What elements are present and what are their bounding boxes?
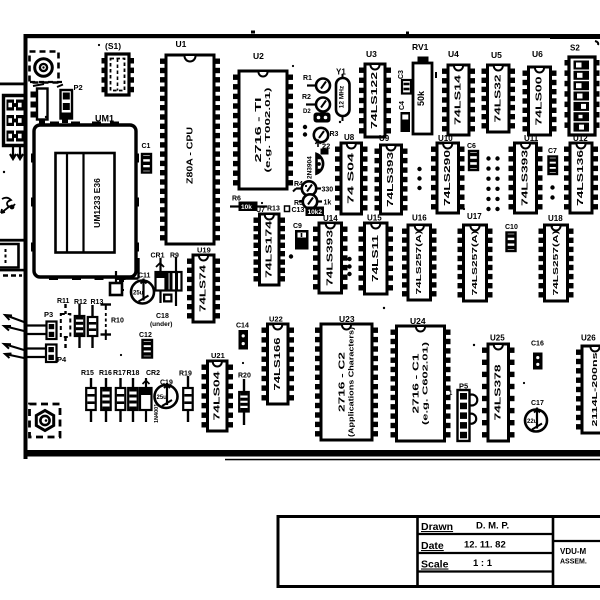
- resistor R10: [101, 305, 124, 341]
- svg-text:74LS257(A): 74LS257(A): [414, 230, 423, 295]
- svg-text:74LS393: 74LS393: [386, 151, 395, 207]
- svg-text:CR1: CR1: [151, 253, 165, 260]
- svg-text:R11: R11: [57, 298, 70, 305]
- svg-text:74LS393: 74LS393: [325, 229, 334, 286]
- op-IC U21 74LS04: [202, 351, 234, 431]
- svg-text:C17: C17: [531, 400, 544, 407]
- op-IC U17 74LS257(A): [458, 212, 493, 301]
- svg-text:330: 330: [322, 187, 334, 194]
- svg-text:ASSEM.: ASSEM.: [560, 559, 587, 566]
- svg-text:(e.g. T002.01): (e.g. T002.01): [263, 87, 272, 173]
- node tick marks on top edge: [251, 31, 255, 34]
- op-IC U18 74LS257(A): [539, 214, 574, 301]
- resistor R9: [168, 253, 182, 307]
- svg-text:1k: 1k: [324, 200, 332, 207]
- svg-text:U5: U5: [491, 50, 502, 60]
- svg-text:74LS136: 74LS136: [576, 149, 585, 206]
- wire left edge line 3: [0, 269, 25, 272]
- connector P3: [44, 310, 57, 339]
- resistor R1: [303, 75, 330, 93]
- op-IC U26 2114L-200ns: [576, 334, 600, 434]
- svg-text:R15: R15: [81, 370, 94, 377]
- svg-text:R20: R20: [238, 373, 251, 380]
- svg-text:U22: U22: [269, 315, 283, 324]
- svg-text:U9: U9: [379, 134, 390, 143]
- resistor R2: [302, 94, 330, 112]
- capacitor C18 under label: [150, 313, 172, 328]
- node holes below U14: [347, 257, 351, 261]
- op-IC U15 74LS11: [359, 214, 394, 295]
- svg-text:U16: U16: [412, 214, 427, 223]
- svg-text:74LS04: 74LS04: [212, 371, 221, 421]
- crystal Y1 12MHz: [336, 68, 350, 122]
- svg-text:R16: R16: [99, 370, 112, 377]
- svg-text:Scale: Scale: [421, 559, 449, 571]
- svg-text:S2: S2: [570, 44, 580, 53]
- svg-text:P4: P4: [57, 355, 67, 364]
- wire board left edge: [24, 34, 28, 459]
- node hole left of U14: [289, 254, 293, 258]
- svg-text:R3: R3: [330, 131, 339, 138]
- title block drawn row: [421, 521, 509, 534]
- svg-text:10k2: 10k2: [308, 209, 323, 216]
- node stray specks: [45, 116, 47, 118]
- resistor R16: [99, 370, 112, 422]
- op-IC U14 74LS393: [313, 214, 348, 293]
- connector P5: [449, 382, 477, 442]
- svg-text:74LS14: 74LS14: [454, 74, 463, 125]
- svg-text:2716 - TI: 2716 - TI: [254, 98, 263, 163]
- wire P3 leads: [27, 326, 47, 335]
- svg-text:R2: R2: [302, 94, 311, 101]
- connector P1: [31, 84, 48, 125]
- svg-text:U3: U3: [366, 49, 377, 59]
- capacitor C7: [548, 148, 557, 174]
- svg-text:(under): (under): [150, 321, 172, 328]
- svg-text:CR2: CR2: [146, 370, 160, 377]
- diode CR1: [151, 253, 166, 304]
- svg-text:74LS290: 74LS290: [443, 149, 452, 206]
- wire board bottom edge thin line: [225, 459, 600, 461]
- op-IC U19 74LS74: [187, 246, 220, 323]
- svg-text:U25: U25: [490, 334, 505, 343]
- svg-text:74LS11: 74LS11: [371, 234, 380, 282]
- capacitor C10: [505, 224, 518, 251]
- op-IC U10 74LS290: [431, 134, 465, 213]
- svg-text:C16: C16: [531, 341, 544, 348]
- svg-text:U15: U15: [367, 214, 382, 223]
- resistor R13b: [88, 299, 104, 348]
- svg-text:2716 - C2: 2716 - C2: [338, 351, 347, 412]
- connector P2: [57, 83, 83, 123]
- wire UM1 to C11 trace: [120, 258, 139, 290]
- svg-text:U4: U4: [448, 49, 459, 59]
- svg-text:25u: 25u: [133, 291, 144, 297]
- connector J1 edge-connector block: [4, 96, 25, 146]
- svg-text:R10: R10: [111, 318, 124, 325]
- svg-text:U8: U8: [344, 133, 355, 142]
- svg-text:12 MHz: 12 MHz: [339, 85, 346, 108]
- svg-text:25u: 25u: [157, 395, 168, 401]
- op-IC U22 74LS166: [262, 315, 295, 405]
- svg-text:UM1233 E36: UM1233 E36: [92, 178, 102, 228]
- wire board top edge: [24, 34, 600, 38]
- wire P4 leads: [27, 349, 46, 358]
- svg-text:R19: R19: [179, 371, 192, 378]
- wire left edge line 2: [0, 239, 25, 242]
- svg-text:Drawn: Drawn: [421, 521, 453, 533]
- svg-text:50k: 50k: [416, 90, 426, 106]
- svg-text:C11: C11: [138, 273, 151, 280]
- svg-text:Y1: Y1: [336, 68, 346, 77]
- capacitor C1: [142, 143, 152, 173]
- title block date row: [421, 540, 506, 553]
- svg-text:R13: R13: [267, 206, 280, 213]
- svg-text:VDU-M: VDU-M: [560, 547, 587, 556]
- svg-text:74LS378: 74LS378: [493, 364, 502, 421]
- svg-text:74LS32: 74LS32: [493, 74, 502, 123]
- module UM1 RF modulator: [31, 114, 139, 281]
- resistor R12: [74, 299, 87, 348]
- node holes left of U11: [486, 156, 490, 160]
- svg-text:74 S04: 74 S04: [346, 152, 355, 204]
- mounting hole top-left dashed box: [30, 52, 59, 83]
- title block frame: [278, 515, 600, 588]
- op-IC U7 74LS174: [254, 207, 286, 285]
- resistor R20: [238, 373, 251, 426]
- capacitor C3: [398, 70, 411, 94]
- svg-text:R17: R17: [113, 370, 126, 377]
- svg-text:2N3904: 2N3904: [307, 156, 314, 179]
- resistor R17: [113, 370, 126, 422]
- op-IC U24 2716-C1: [391, 316, 451, 441]
- svg-text:Z80A - CPU: Z80A - CPU: [184, 127, 194, 184]
- svg-text:74LS174: 74LS174: [264, 220, 273, 278]
- wire left edge dashes: [3, 274, 22, 276]
- connector left edge box: [0, 244, 19, 268]
- op-IC U16 74LS257(A): [402, 214, 437, 301]
- resistor R19: [179, 371, 193, 423]
- switch S1: [102, 41, 135, 95]
- diode D2: [303, 109, 331, 123]
- op-IC U12 74LS136: [564, 134, 598, 213]
- svg-text:1 : 1: 1 : 1: [473, 558, 493, 569]
- node video annotation squiggle: [1, 198, 15, 213]
- resistor R18: [127, 370, 140, 422]
- svg-text:C9: C9: [293, 223, 302, 230]
- switch S2: [565, 44, 600, 136]
- capacitor C16: [531, 341, 544, 370]
- resistor R13 10k2: [306, 207, 325, 217]
- wire left edge horizontal line: [0, 83, 25, 86]
- capacitor C14: [236, 323, 249, 350]
- wire arrows off board left P4: [4, 344, 24, 358]
- node holes below C7: [550, 185, 554, 189]
- capacitor C13 label: [285, 206, 305, 214]
- capacitor C4: [399, 101, 410, 132]
- title block drawing name: [560, 547, 587, 566]
- svg-text:U21: U21: [211, 351, 225, 360]
- capacitor C9: [293, 223, 309, 250]
- capacitor C19 25u electrolytic: [155, 380, 178, 409]
- capacitor C6: [467, 143, 478, 170]
- svg-text:2716 - C1: 2716 - C1: [412, 353, 421, 414]
- svg-text:74LS257(A): 74LS257(A): [551, 230, 560, 296]
- wire board top edge right thick segment: [550, 37, 600, 40]
- op-IC U4 74LS14: [442, 49, 475, 135]
- svg-text:(e.g. C602.01): (e.g. C602.01): [420, 341, 429, 425]
- op-IC U9 74LS393: [375, 134, 408, 214]
- mounting hole bottom-left dashed box: [30, 404, 61, 437]
- op-IC U11 74LS393: [509, 134, 543, 213]
- svg-text:U6: U6: [532, 49, 543, 59]
- wire arrows off board left P3: [4, 315, 24, 331]
- op-IC U1 Z80A-CPU: [160, 39, 220, 244]
- svg-text:C14: C14: [236, 323, 249, 330]
- svg-text:D2: D2: [303, 109, 311, 115]
- resistor R3: [314, 128, 339, 142]
- resistor R4 330: [294, 181, 333, 196]
- svg-text:R18: R18: [127, 370, 140, 377]
- svg-text:C4: C4: [399, 101, 406, 110]
- svg-text:U26: U26: [581, 334, 596, 343]
- svg-text:74LS166: 74LS166: [273, 337, 282, 391]
- svg-text:U18: U18: [548, 214, 563, 223]
- svg-text:10k: 10k: [241, 204, 252, 211]
- svg-text:P2: P2: [74, 83, 83, 92]
- svg-text:C6: C6: [467, 143, 476, 150]
- svg-text:U2: U2: [253, 51, 264, 61]
- svg-text:C7: C7: [548, 148, 557, 155]
- svg-text:P3: P3: [44, 310, 53, 319]
- svg-text:R6: R6: [232, 196, 241, 203]
- node holes between U9 and U10: [417, 167, 421, 171]
- svg-text:RV1: RV1: [412, 42, 429, 52]
- capacitor C11 25u electrolytic: [131, 273, 154, 304]
- node 22 annotation: [316, 140, 331, 151]
- op-IC U8 74S04: [335, 133, 368, 214]
- transistor Q1 2N3904: [307, 149, 329, 180]
- wire top-right corner mark: [595, 41, 598, 45]
- op-IC U6 74LS00: [523, 49, 557, 135]
- svg-text:22u: 22u: [527, 419, 538, 425]
- resistor R5 1k: [294, 194, 331, 208]
- svg-text:C3: C3: [398, 70, 405, 79]
- svg-text:U17: U17: [467, 212, 482, 221]
- svg-text:C1: C1: [142, 143, 151, 150]
- node E pad: [163, 294, 173, 303]
- svg-text:U19: U19: [197, 246, 211, 255]
- svg-text:12. 11. 82: 12. 11. 82: [464, 540, 506, 551]
- svg-text:(S1): (S1): [105, 41, 121, 51]
- wire arrows below connector: [10, 147, 23, 159]
- resistor R11 (dashed): [57, 298, 70, 348]
- svg-text:(Applications Characters): (Applications Characters): [346, 326, 355, 437]
- svg-text:C13: C13: [292, 207, 305, 214]
- svg-text:74LS393: 74LS393: [521, 149, 530, 206]
- svg-text:C18: C18: [156, 313, 169, 320]
- mounting hole top-left: [35, 59, 53, 77]
- svg-text:74LS74: 74LS74: [199, 264, 208, 312]
- svg-text:R1: R1: [303, 75, 312, 82]
- mounting hole bottom-left hex nut: [36, 411, 53, 431]
- op-IC U2 2716-TI: [233, 51, 293, 189]
- capacitor C12: [139, 332, 152, 358]
- svg-text:2114L-200ns: 2114L-200ns: [590, 353, 599, 427]
- resistor R15: [81, 370, 96, 422]
- wire board bottom edge: [24, 450, 600, 457]
- diode CR2: [140, 370, 160, 423]
- node holes: [303, 125, 307, 129]
- title block scale row: [421, 558, 493, 571]
- connector P4: [46, 345, 67, 365]
- capacitor C18 pad: [110, 271, 122, 295]
- svg-text:74LS257(A): 74LS257(A): [470, 230, 479, 296]
- svg-text:U1: U1: [176, 39, 187, 49]
- potentiometer RV1 50k: [412, 42, 436, 134]
- op-IC U25 74LS378: [482, 334, 515, 442]
- resistor R6 10k: [230, 196, 267, 212]
- wire dashed line near mounting hole: [30, 81, 62, 83]
- svg-text:R9: R9: [170, 253, 179, 260]
- svg-text:74LS122: 74LS122: [370, 71, 379, 129]
- op-IC U23 2716-C2: [315, 314, 378, 440]
- op-IC U3 74LS122: [359, 49, 391, 137]
- svg-text:C10: C10: [505, 224, 518, 231]
- svg-text:C12: C12: [139, 332, 152, 339]
- svg-text:D. M. P.: D. M. P.: [476, 521, 509, 532]
- op-IC U5 74LS32: [482, 50, 516, 132]
- svg-text:Date: Date: [421, 540, 444, 552]
- svg-text:74LS00: 74LS00: [535, 76, 544, 126]
- capacitor C17 22u electrolytic: [525, 400, 547, 432]
